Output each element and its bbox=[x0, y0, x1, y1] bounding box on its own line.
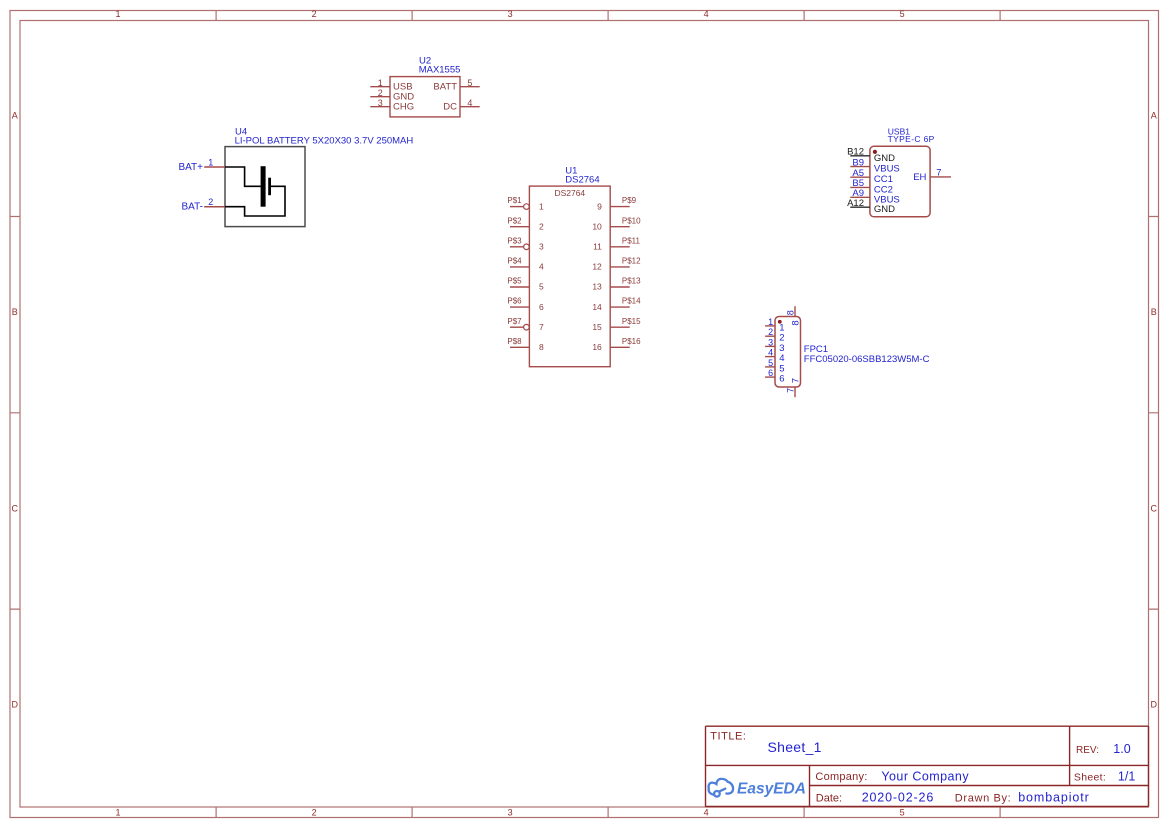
svg-text:4: 4 bbox=[467, 98, 472, 108]
svg-text:EasyEDA: EasyEDA bbox=[737, 780, 806, 797]
svg-text:P$13: P$13 bbox=[622, 277, 641, 286]
svg-text:1: 1 bbox=[378, 78, 383, 88]
svg-text:B: B bbox=[12, 307, 18, 317]
U1 pin 3 wire with inversion circle bbox=[510, 246, 524, 248]
svg-text:VBUS: VBUS bbox=[874, 164, 900, 175]
svg-text:Date:: Date: bbox=[816, 792, 842, 804]
U1 pin 9 wire bbox=[610, 206, 630, 208]
title block top edge bbox=[706, 725, 1149, 727]
svg-text:2: 2 bbox=[208, 197, 213, 207]
U1 pin 8 wire bbox=[510, 346, 529, 348]
IC U1 DS2764 bbox=[507, 165, 641, 366]
svg-text:P$5: P$5 bbox=[507, 277, 522, 286]
svg-text:7: 7 bbox=[791, 378, 802, 383]
title block left edge bbox=[705, 726, 707, 806]
svg-text:C: C bbox=[12, 503, 19, 513]
svg-text:A: A bbox=[12, 111, 18, 121]
svg-text:BATT: BATT bbox=[433, 82, 457, 93]
svg-text:2: 2 bbox=[312, 9, 317, 19]
svg-text:13: 13 bbox=[592, 282, 602, 292]
svg-text:2020-02-26: 2020-02-26 bbox=[862, 791, 934, 805]
USB1 pin B12 wire bbox=[850, 155, 870, 157]
svg-text:1.0: 1.0 bbox=[1113, 742, 1130, 756]
svg-text:P$4: P$4 bbox=[507, 257, 522, 266]
svg-text:P$11: P$11 bbox=[622, 236, 641, 245]
FPC1 pin 2 wire bbox=[765, 335, 775, 337]
svg-text:16: 16 bbox=[592, 342, 602, 352]
svg-text:1/1: 1/1 bbox=[1118, 770, 1135, 784]
svg-text:P$1: P$1 bbox=[507, 196, 522, 205]
title block row divider 2 bbox=[810, 785, 1149, 787]
U1 pin 6 wire bbox=[510, 306, 529, 308]
title block REV column divider bbox=[1069, 726, 1071, 785]
svg-text:4: 4 bbox=[704, 9, 709, 19]
FPC1 pin 1 wire bbox=[765, 325, 775, 327]
svg-text:A12: A12 bbox=[847, 198, 864, 209]
title block bbox=[706, 726, 1149, 806]
svg-text:1: 1 bbox=[115, 9, 120, 19]
svg-text:D: D bbox=[12, 700, 19, 710]
svg-text:P$7: P$7 bbox=[507, 317, 522, 326]
svg-text:3: 3 bbox=[539, 242, 544, 252]
U2 pin 5 (BATT) wire bbox=[460, 86, 480, 88]
svg-text:DS2764: DS2764 bbox=[565, 175, 599, 186]
svg-text:2: 2 bbox=[768, 327, 773, 337]
svg-text:P$16: P$16 bbox=[622, 337, 641, 346]
USB1 pin-1 marker dot bbox=[873, 150, 877, 154]
svg-text:5: 5 bbox=[900, 9, 905, 19]
svg-text:MAX1555: MAX1555 bbox=[419, 65, 461, 76]
svg-text:1: 1 bbox=[208, 157, 213, 167]
op-amp/charger U2 MAX1555 bbox=[370, 56, 479, 117]
U1 pin 5 wire bbox=[510, 286, 529, 288]
svg-text:D: D bbox=[1150, 700, 1157, 710]
svg-text:5: 5 bbox=[539, 282, 544, 292]
svg-text:15: 15 bbox=[592, 322, 602, 332]
svg-text:5: 5 bbox=[900, 807, 905, 817]
battery U4 LI-POL bbox=[178, 127, 413, 227]
svg-text:8: 8 bbox=[539, 342, 544, 352]
U1 pin 15 wire bbox=[610, 326, 630, 328]
svg-text:P$12: P$12 bbox=[622, 257, 641, 266]
USB1 pin 7 (EH shield) wire bbox=[930, 176, 951, 178]
svg-text:GND: GND bbox=[874, 204, 895, 215]
connector USB1 TYPE-C 6P bbox=[847, 127, 951, 217]
svg-text:GND: GND bbox=[874, 153, 895, 164]
svg-text:8: 8 bbox=[786, 310, 796, 315]
U4 pin 1 wire bbox=[204, 166, 225, 168]
svg-text:3: 3 bbox=[508, 807, 513, 817]
battery internal wire to pin 2 bbox=[225, 186, 285, 216]
svg-text:A: A bbox=[1151, 111, 1157, 121]
title block logo cell divider bbox=[809, 765, 811, 806]
svg-text:4: 4 bbox=[704, 807, 709, 817]
svg-text:6: 6 bbox=[539, 302, 544, 312]
svg-text:P$2: P$2 bbox=[507, 216, 522, 225]
svg-text:5: 5 bbox=[768, 358, 773, 368]
svg-text:DC: DC bbox=[443, 102, 457, 113]
U2 body rectangle bbox=[390, 77, 460, 117]
svg-text:EH: EH bbox=[913, 172, 926, 183]
svg-text:C: C bbox=[1150, 503, 1157, 513]
logo wire segment bbox=[720, 789, 726, 792]
svg-text:bombapiotr: bombapiotr bbox=[1018, 791, 1090, 805]
svg-text:2: 2 bbox=[312, 807, 317, 817]
svg-text:BAT-: BAT- bbox=[182, 202, 203, 213]
svg-text:3: 3 bbox=[508, 9, 513, 19]
top ruler ticks bbox=[216, 11, 1000, 21]
svg-text:Your Company: Your Company bbox=[881, 769, 969, 783]
USB1 pin B9 wire bbox=[850, 166, 870, 168]
svg-text:B: B bbox=[1151, 307, 1157, 317]
U1 pin 13 wire bbox=[610, 286, 630, 288]
battery internal wire from pin 1 bbox=[225, 167, 261, 186]
title block bottom edge bbox=[706, 806, 1149, 808]
svg-text:TITLE:: TITLE: bbox=[710, 730, 746, 742]
FPC1 pin 8 wire (top) bbox=[794, 306, 796, 316]
USB1 pin A5 wire bbox=[850, 176, 870, 178]
svg-text:1: 1 bbox=[539, 201, 544, 211]
svg-text:6: 6 bbox=[768, 368, 773, 378]
title block row divider 1 bbox=[706, 764, 1149, 766]
svg-text:CHG: CHG bbox=[393, 102, 414, 113]
bottom ruler ticks bbox=[216, 807, 1000, 818]
U4 body rectangle bbox=[225, 147, 305, 227]
svg-text:B12: B12 bbox=[847, 147, 864, 158]
FPC1 body rounded rectangle bbox=[775, 317, 801, 388]
U2 pin 2 (GND) wire bbox=[370, 96, 390, 98]
svg-text:Drawn By:: Drawn By: bbox=[955, 792, 1012, 804]
svg-text:LI-POL BATTERY 5X20X30 3.7V 25: LI-POL BATTERY 5X20X30 3.7V 250MAH bbox=[235, 136, 414, 147]
USB1 pin B5 wire bbox=[850, 186, 870, 188]
svg-text:P$6: P$6 bbox=[507, 297, 522, 306]
svg-text:2: 2 bbox=[539, 221, 544, 231]
U1 pin 16 wire bbox=[610, 346, 630, 348]
logo cloud outline bbox=[709, 779, 734, 795]
svg-text:5: 5 bbox=[467, 78, 472, 88]
U1 pin 14 wire bbox=[610, 306, 630, 308]
USB1 pin A12 wire bbox=[850, 206, 870, 208]
USB1 body rounded rectangle bbox=[870, 146, 930, 217]
svg-text:4: 4 bbox=[768, 348, 773, 358]
svg-text:2: 2 bbox=[378, 88, 383, 98]
U1 pin 12 wire bbox=[610, 266, 630, 268]
svg-text:P$14: P$14 bbox=[622, 297, 641, 306]
svg-text:Sheet:: Sheet: bbox=[1074, 772, 1106, 784]
U1 pin 1 wire with inversion circle bbox=[510, 206, 524, 208]
right ruler ticks bbox=[1149, 217, 1159, 610]
svg-text:DS2764: DS2764 bbox=[554, 188, 585, 198]
U1 pin 11 wire bbox=[610, 246, 630, 248]
svg-text:7: 7 bbox=[539, 322, 544, 332]
U1 body rectangle bbox=[529, 186, 610, 367]
FPC1 pin 6 wire bbox=[765, 376, 775, 378]
svg-text:9: 9 bbox=[597, 201, 602, 211]
svg-text:1: 1 bbox=[115, 807, 120, 817]
svg-text:12: 12 bbox=[592, 262, 602, 272]
svg-text:B9: B9 bbox=[852, 157, 864, 168]
svg-text:P$9: P$9 bbox=[622, 196, 637, 205]
svg-text:3: 3 bbox=[378, 98, 383, 108]
battery short plate bbox=[268, 178, 271, 196]
svg-text:1: 1 bbox=[768, 317, 773, 327]
U1 pin 10 wire bbox=[610, 226, 630, 228]
FPC1 pin 5 wire bbox=[765, 366, 775, 368]
EasyEDA logo bbox=[709, 779, 806, 798]
svg-text:Sheet_1: Sheet_1 bbox=[768, 739, 822, 755]
svg-text:REV:: REV: bbox=[1076, 745, 1099, 756]
svg-text:TYPE-C 6P: TYPE-C 6P bbox=[888, 134, 935, 144]
U1 pin 7 wire with inversion circle bbox=[510, 326, 524, 328]
svg-text:6: 6 bbox=[779, 374, 784, 385]
svg-text:8: 8 bbox=[791, 320, 802, 325]
left ruler ticks bbox=[10, 217, 20, 610]
svg-text:4: 4 bbox=[539, 262, 544, 272]
svg-text:11: 11 bbox=[593, 242, 602, 252]
U1 pin 2 wire bbox=[510, 226, 529, 228]
USB1 pin A9 wire bbox=[850, 196, 870, 198]
svg-text:3: 3 bbox=[768, 337, 773, 347]
title block right edge bbox=[1148, 726, 1150, 806]
svg-text:P$8: P$8 bbox=[507, 337, 522, 346]
svg-text:P$10: P$10 bbox=[622, 216, 641, 225]
connector FPC1 FFC05020-06SBB123W5M-C bbox=[765, 306, 930, 397]
svg-text:Company:: Company: bbox=[815, 771, 867, 783]
svg-text:P$3: P$3 bbox=[507, 236, 522, 245]
U2 pin 4 (DC) wire bbox=[460, 106, 480, 108]
FPC1 pin-1 marker dot bbox=[778, 320, 782, 324]
U1 pin 4 wire bbox=[510, 266, 529, 268]
logo wheel circle bbox=[714, 791, 720, 797]
U2 pin 3 (CHG) wire bbox=[370, 106, 390, 108]
svg-text:7: 7 bbox=[936, 168, 941, 179]
svg-text:FFC05020-06SBB123W5M-C: FFC05020-06SBB123W5M-C bbox=[804, 354, 930, 365]
U4 pin 2 wire bbox=[204, 206, 225, 208]
svg-text:7: 7 bbox=[786, 388, 796, 393]
FPC1 pin 4 wire bbox=[765, 356, 775, 358]
FPC1 pin 3 wire bbox=[765, 345, 775, 347]
svg-text:10: 10 bbox=[592, 221, 602, 231]
U2 pin 1 (USB) wire bbox=[370, 86, 390, 88]
FPC1 pin 7 wire (bottom) bbox=[794, 387, 796, 397]
svg-text:14: 14 bbox=[592, 302, 602, 312]
svg-text:BAT+: BAT+ bbox=[178, 162, 203, 173]
svg-text:P$15: P$15 bbox=[622, 317, 641, 326]
battery long plate bbox=[261, 166, 266, 207]
